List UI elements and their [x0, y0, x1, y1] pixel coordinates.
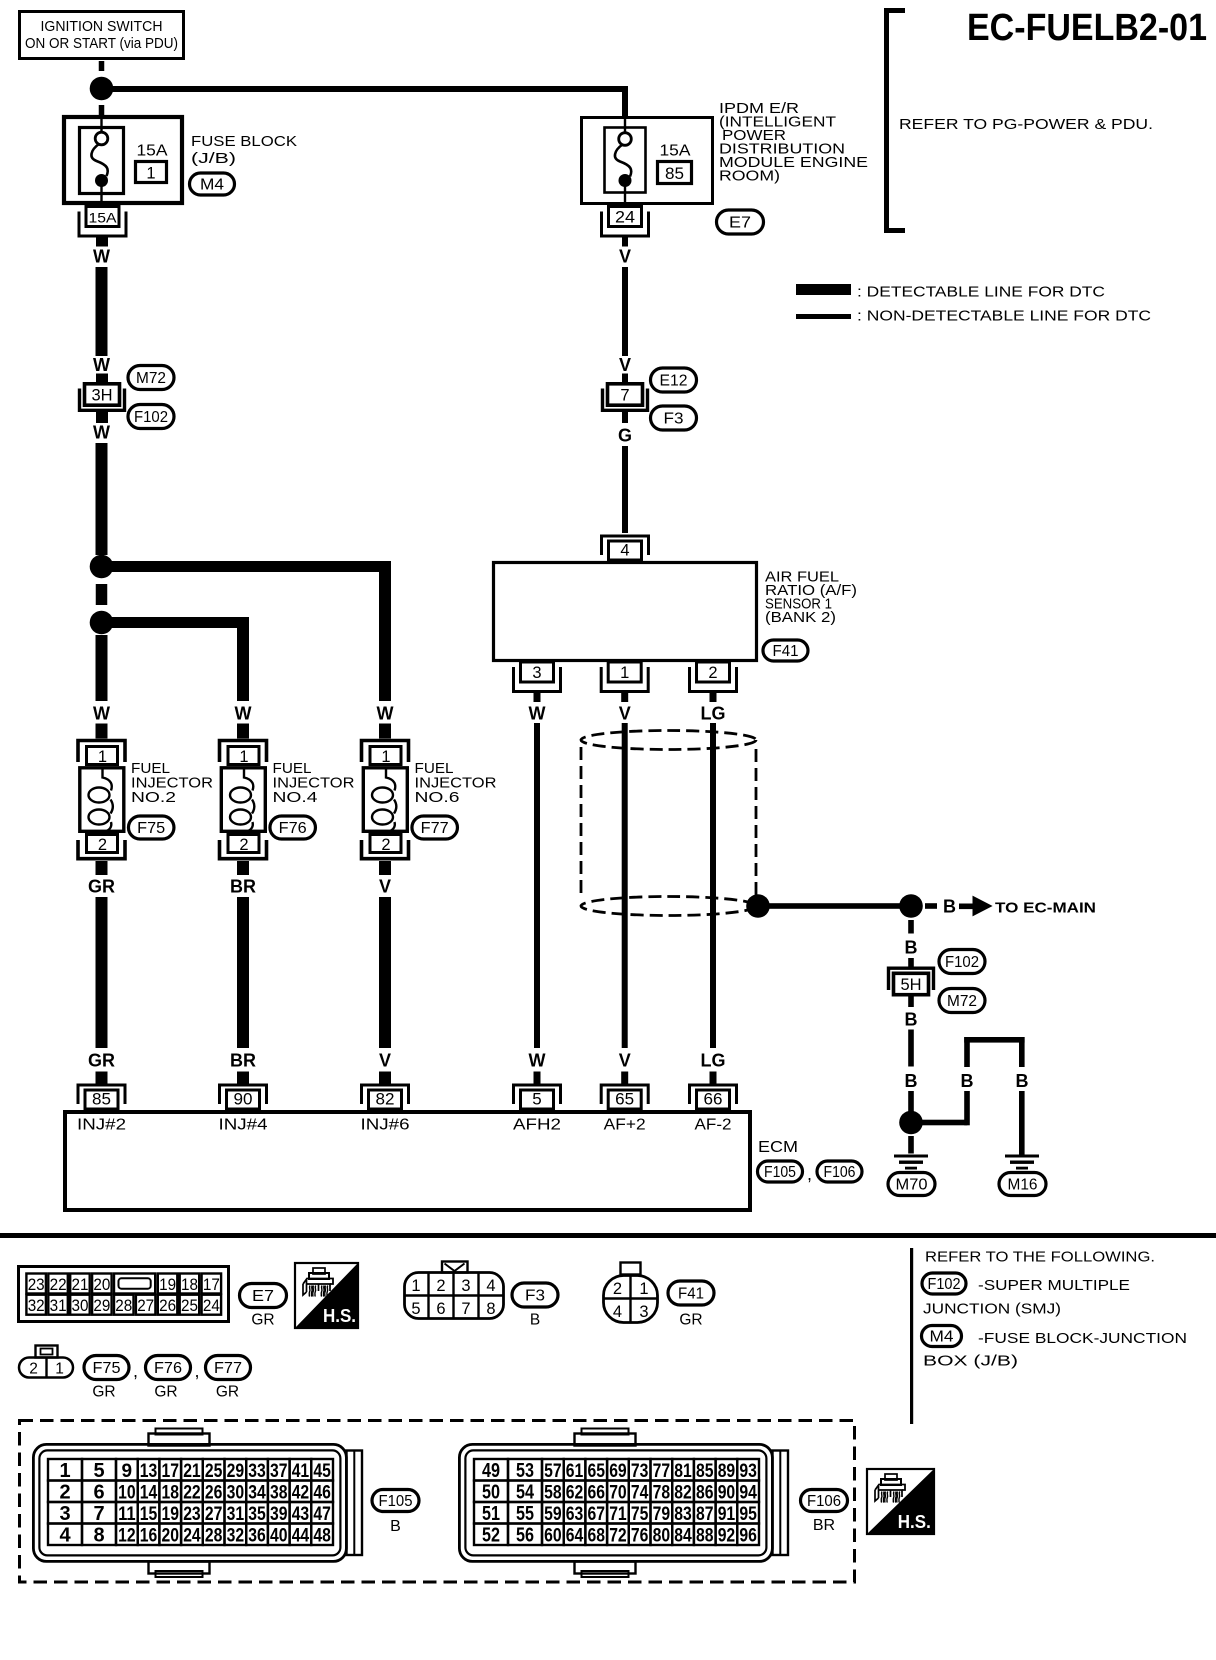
svg-text:72: 72 [609, 1526, 627, 1547]
svg-text:F75: F75 [93, 1360, 121, 1377]
svg-text:91: 91 [718, 1504, 736, 1525]
svg-text:24: 24 [183, 1526, 201, 1547]
svg-text:B: B [943, 897, 956, 917]
svg-text:90: 90 [718, 1483, 736, 1504]
reference bracket [884, 8, 905, 233]
svg-text:B: B [905, 1071, 918, 1091]
connector ref E12 [651, 368, 697, 392]
svg-text:95: 95 [739, 1504, 757, 1525]
svg-text:GR: GR [251, 1312, 274, 1329]
svg-text:68: 68 [588, 1526, 606, 1547]
wire stub into injector [96, 724, 108, 739]
svg-text:BR: BR [813, 1517, 835, 1534]
svg-text:31: 31 [50, 1296, 67, 1315]
connector ref M4 (note) [922, 1326, 962, 1347]
svg-text:F3: F3 [664, 411, 684, 428]
svg-text:1: 1 [239, 748, 248, 766]
svg-text:32: 32 [227, 1526, 245, 1547]
svg-text:B: B [905, 938, 918, 958]
svg-text:F76: F76 [279, 820, 307, 837]
svg-text:18: 18 [181, 1275, 198, 1294]
svg-text:12: 12 [118, 1526, 136, 1547]
svg-text:EC-FUELB2-01: EC-FUELB2-01 [967, 7, 1207, 49]
svg-text:1: 1 [146, 165, 155, 183]
svg-text:ECM: ECM [758, 1139, 798, 1156]
connector ref F105 (view) [372, 1490, 419, 1512]
svg-text:46: 46 [313, 1483, 331, 1504]
svg-text:M70: M70 [896, 1177, 928, 1194]
svg-text:92: 92 [718, 1526, 736, 1547]
ignition switch box [20, 12, 184, 59]
svg-text:W: W [93, 423, 110, 443]
svg-text:W: W [529, 704, 546, 724]
svg-text:89: 89 [718, 1461, 736, 1482]
svg-text:V: V [619, 704, 631, 724]
svg-text:86: 86 [696, 1483, 714, 1504]
ground ref M16 [999, 1173, 1046, 1196]
ECM box [65, 1112, 750, 1210]
svg-text:66: 66 [588, 1483, 606, 1504]
svg-text:44: 44 [292, 1526, 310, 1547]
ground symbol M16 [1005, 1155, 1039, 1170]
svg-text:1: 1 [55, 1361, 64, 1378]
svg-text:F76: F76 [154, 1360, 182, 1377]
svg-text:W: W [93, 247, 110, 267]
wire junction E to right leg [920, 1120, 967, 1126]
terminal 24 below IPDM [602, 207, 649, 237]
svg-text:47: 47 [313, 1504, 331, 1525]
svg-text:61: 61 [566, 1461, 584, 1482]
wire BR injector No.4 to ECM (thick) [237, 897, 249, 1048]
svg-text:31: 31 [227, 1504, 245, 1525]
ECM terminal 85 [78, 1085, 125, 1109]
svg-text:V: V [619, 247, 631, 267]
label IPDM E/R [719, 100, 868, 185]
connector ref F106 [817, 1161, 862, 1182]
svg-text:V: V [379, 1051, 391, 1071]
svg-text:82: 82 [376, 1090, 395, 1109]
svg-text:F102: F102 [134, 409, 168, 426]
connector ref F3 [651, 406, 697, 430]
svg-text:85: 85 [665, 165, 684, 183]
svg-text:4: 4 [59, 1525, 71, 1547]
svg-text:5H: 5H [900, 976, 921, 994]
svg-text:2: 2 [381, 836, 390, 854]
wire dash above 5H [908, 958, 914, 967]
svg-text:3H: 3H [91, 387, 112, 405]
svg-text:GR: GR [154, 1384, 177, 1401]
svg-text:88: 88 [696, 1526, 714, 1547]
svg-text:M4: M4 [200, 177, 224, 194]
arrow TO EC-MAIN [959, 897, 992, 916]
connector view F41 4-pin [604, 1263, 658, 1323]
svg-text:B: B [390, 1518, 401, 1535]
svg-text:94: 94 [739, 1483, 757, 1504]
svg-text:M72: M72 [947, 993, 977, 1010]
wire stub below 7 [622, 411, 628, 423]
svg-text:87: 87 [696, 1504, 714, 1525]
fuel injector No.4 F76 [220, 741, 267, 859]
stubs into ECM terminals [96, 1072, 717, 1086]
labels FUEL INJECTOR NO.6 [415, 760, 497, 806]
svg-text:3: 3 [639, 1303, 648, 1321]
svg-text:3: 3 [59, 1503, 70, 1525]
svg-text:,: , [807, 1164, 812, 1184]
wire dashes below junction D [908, 920, 914, 934]
connector ref E7 (view) [240, 1284, 287, 1308]
wire branch junction B to injector No.6 [101, 561, 391, 701]
labels FUEL INJECTOR NO.2 [131, 760, 213, 806]
svg-text:66: 66 [704, 1090, 723, 1109]
connector ref F106 (view) [801, 1490, 848, 1512]
connector ref F3 (view) [512, 1283, 558, 1307]
wire stub into 3H [96, 374, 108, 383]
wire G 7 to A/F sensor pin 4 (thin) [622, 446, 628, 533]
svg-text:NO.6: NO.6 [415, 789, 460, 806]
svg-text:LG: LG [701, 704, 726, 724]
svg-text:10: 10 [118, 1483, 136, 1504]
svg-text:96: 96 [739, 1526, 757, 1547]
svg-text:M4: M4 [930, 1329, 954, 1346]
connector view E7 24-pin [19, 1267, 229, 1322]
svg-text:(BANK 2): (BANK 2) [765, 609, 836, 626]
svg-text:85: 85 [92, 1090, 111, 1109]
svg-text:32: 32 [28, 1296, 45, 1315]
svg-text:55: 55 [516, 1503, 534, 1525]
svg-text:29: 29 [93, 1296, 110, 1315]
svg-text:65: 65 [615, 1090, 634, 1109]
dashed box around ECM connector views [20, 1421, 855, 1583]
svg-text:ROOM): ROOM) [719, 168, 780, 185]
svg-text:FUSE BLOCK: FUSE BLOCK [191, 133, 297, 150]
fuse number 1 box [136, 162, 167, 183]
svg-text:20: 20 [93, 1275, 110, 1294]
svg-text:AFH2: AFH2 [513, 1117, 561, 1134]
connector ref F41 [763, 640, 808, 661]
svg-text:77: 77 [653, 1461, 671, 1482]
wire stub below terminal 15A [96, 237, 108, 247]
svg-text:F102: F102 [928, 1276, 961, 1293]
svg-text:17: 17 [162, 1461, 180, 1482]
svg-text:3: 3 [461, 1277, 470, 1295]
wire junction C down to injector No.2 (thick) [96, 635, 108, 701]
svg-text:2: 2 [436, 1277, 445, 1295]
svg-text:6: 6 [93, 1482, 104, 1504]
terminal 4 on A/F sensor [602, 536, 649, 560]
connector ref F77 [412, 816, 458, 839]
wire V injector No.6 to ECM (thick) [379, 897, 391, 1048]
svg-text:B: B [530, 1312, 540, 1329]
svg-text:-FUSE BLOCK-JUNCTION: -FUSE BLOCK-JUNCTION [978, 1331, 1187, 1347]
svg-text:INJ#2: INJ#2 [77, 1117, 126, 1134]
connector ref F76 (view) [146, 1356, 191, 1380]
svg-text:30: 30 [227, 1483, 245, 1504]
legend detectable line [796, 284, 1105, 301]
svg-text:24: 24 [203, 1296, 220, 1315]
connector ref F102 (note) [922, 1273, 966, 1294]
labels GR under F75 F76 F77 [92, 1384, 239, 1401]
svg-text:E7: E7 [729, 215, 751, 232]
ECM terminal 90 [220, 1085, 267, 1109]
svg-text:57: 57 [544, 1461, 562, 1482]
svg-text:41: 41 [292, 1461, 310, 1482]
svg-text:51: 51 [482, 1503, 500, 1525]
wire stub below terminal 2 [710, 693, 717, 702]
connector ref F41 (view) [668, 1281, 714, 1305]
svg-text:93: 93 [739, 1461, 757, 1482]
svg-text:65: 65 [588, 1461, 606, 1482]
svg-text:15: 15 [140, 1504, 158, 1525]
connector view F75/F76/F77 2-pin [19, 1346, 73, 1378]
connector ref F105 [758, 1161, 803, 1182]
wire: junction A to IPDM feed [107, 86, 628, 116]
svg-text:59: 59 [544, 1504, 562, 1525]
svg-text:27: 27 [137, 1296, 154, 1315]
svg-text:28: 28 [115, 1296, 132, 1315]
svg-text:1: 1 [620, 664, 629, 682]
wire V sensor pin1 to ECM (thin) [622, 723, 628, 1048]
svg-text:7: 7 [620, 387, 629, 405]
svg-text:15A: 15A [89, 210, 118, 226]
svg-text:75: 75 [631, 1504, 649, 1525]
svg-text:34: 34 [248, 1483, 266, 1504]
wire left leg lower segment [964, 1091, 970, 1125]
legend non-detectable line [796, 309, 1151, 325]
wire junction E to ground M70 [908, 1136, 914, 1154]
svg-text:21: 21 [72, 1275, 89, 1294]
wire stub into injector [379, 724, 391, 739]
svg-text:45: 45 [313, 1461, 331, 1482]
fuse 15A no.85 symbol [615, 118, 632, 204]
svg-text:18: 18 [162, 1483, 180, 1504]
svg-text:74: 74 [631, 1483, 649, 1504]
svg-text:G: G [618, 426, 632, 446]
junction dot E [899, 1111, 923, 1135]
connector ref F75 (view) [84, 1356, 129, 1380]
svg-text:,: , [195, 1361, 200, 1381]
connector ref M4 [190, 173, 235, 195]
svg-text:13: 13 [140, 1461, 158, 1482]
svg-text:2: 2 [239, 836, 248, 854]
wire stub below terminal 1 [621, 693, 628, 702]
svg-text:2: 2 [29, 1361, 38, 1378]
junction dot A [90, 77, 114, 101]
svg-text:25: 25 [181, 1296, 198, 1315]
svg-text:ON OR START (via PDU): ON OR START (via PDU) [25, 36, 178, 52]
ECM terminal 66 [690, 1085, 737, 1109]
svg-text:14: 14 [140, 1483, 158, 1504]
junction dot C [90, 611, 114, 635]
junction dot B [90, 555, 114, 579]
svg-text:85: 85 [696, 1461, 714, 1482]
wire V IPDM to 7 (thin) [622, 267, 628, 356]
ground symbol M70 [894, 1155, 928, 1170]
svg-text:90: 90 [234, 1090, 253, 1109]
wire stub into injector [237, 724, 249, 739]
svg-text:BR: BR [230, 1051, 256, 1071]
svg-text:F77: F77 [214, 1360, 242, 1377]
svg-text:GR: GR [679, 1312, 702, 1329]
svg-text:67: 67 [588, 1504, 606, 1525]
svg-text:22: 22 [183, 1483, 201, 1504]
terminal 1 below sensor [601, 662, 648, 692]
svg-text:40: 40 [270, 1526, 288, 1547]
svg-text:: DETECTABLE LINE FOR DTC: : DETECTABLE LINE FOR DTC [857, 285, 1105, 301]
svg-text:24: 24 [615, 209, 635, 227]
svg-text:,: , [133, 1361, 138, 1381]
svg-text:76: 76 [631, 1526, 649, 1547]
svg-text:60: 60 [544, 1526, 562, 1547]
svg-text:80: 80 [653, 1526, 671, 1547]
svg-text:7: 7 [93, 1503, 104, 1525]
wire branch junction C to injector No.4 [101, 617, 249, 701]
svg-text:35: 35 [248, 1504, 266, 1525]
labels FUEL INJECTOR NO.4 [273, 760, 355, 806]
svg-text:22: 22 [50, 1275, 67, 1294]
svg-text:IGNITION SWITCH: IGNITION SWITCH [41, 19, 163, 35]
svg-text:26: 26 [159, 1296, 176, 1315]
wire LG sensor pin2 to ECM (thin) [710, 723, 716, 1048]
H.S. icon upper [295, 1263, 358, 1328]
wire: junction A to fuse block (dashed) [99, 105, 105, 116]
svg-text:15A: 15A [660, 143, 692, 160]
svg-text:V: V [379, 877, 391, 897]
wire B segment to junction E [908, 1091, 914, 1112]
wire dash right of junction D [925, 903, 937, 909]
svg-text:37: 37 [270, 1461, 288, 1482]
IPDM E/R box [582, 118, 713, 204]
svg-text:19: 19 [162, 1504, 180, 1525]
svg-text:LG: LG [701, 1051, 726, 1071]
svg-text:B: B [1016, 1071, 1029, 1091]
svg-text:8: 8 [93, 1525, 104, 1547]
svg-text:56: 56 [516, 1525, 534, 1547]
svg-text:: NON-DETECTABLE LINE FOR DTC: : NON-DETECTABLE LINE FOR DTC [857, 309, 1151, 325]
svg-text:M72: M72 [136, 370, 166, 387]
wire stub below terminal 24 [622, 237, 628, 247]
terminal 2 below sensor [690, 662, 737, 692]
svg-text:TO EC-MAIN: TO EC-MAIN [995, 900, 1096, 917]
junction dot D [899, 894, 923, 918]
svg-text:7: 7 [461, 1300, 470, 1318]
connector view F105 48-pin [33, 1429, 362, 1578]
wire GR injector No.2 to ECM (thick) [96, 897, 108, 1048]
svg-text:GR: GR [88, 877, 115, 897]
ECM terminal 65 [601, 1085, 648, 1109]
H.S. icon lower [867, 1469, 934, 1534]
svg-text:81: 81 [674, 1461, 692, 1482]
svg-text:2: 2 [708, 664, 717, 682]
svg-text:8: 8 [486, 1300, 495, 1318]
svg-text:-SUPER MULTIPLE: -SUPER MULTIPLE [978, 1278, 1130, 1294]
terminal 3 below sensor [514, 662, 561, 692]
section separator line [0, 1233, 1216, 1238]
svg-text:4: 4 [486, 1277, 495, 1295]
svg-text:36: 36 [248, 1526, 266, 1547]
connector ref F75 [128, 816, 174, 839]
svg-text:F102: F102 [945, 954, 979, 971]
fuse block J/B box [64, 117, 182, 203]
SMJ connector 3H [80, 384, 125, 411]
label FUSE BLOCK (J/B) [191, 133, 297, 167]
svg-text:42: 42 [292, 1483, 310, 1504]
svg-text:F105: F105 [764, 1164, 796, 1181]
svg-text:9: 9 [122, 1461, 133, 1482]
svg-text:W: W [235, 704, 252, 724]
label AIR FUEL RATIO (A/F) SENSOR 1 (BANK 2) [765, 569, 857, 627]
svg-text:26: 26 [205, 1483, 223, 1504]
ECM terminal 82 [362, 1085, 409, 1109]
svg-text:2: 2 [59, 1482, 70, 1504]
svg-text:NO.2: NO.2 [131, 789, 176, 806]
svg-text:B: B [961, 1071, 974, 1091]
svg-text:1: 1 [98, 748, 107, 766]
svg-text:REFER TO PG-POWER & PDU.: REFER TO PG-POWER & PDU. [899, 117, 1153, 133]
fuse 15A no.1 symbol [91, 117, 108, 203]
svg-text:W: W [377, 704, 394, 724]
svg-text:F106: F106 [824, 1164, 856, 1181]
svg-text:19: 19 [159, 1275, 176, 1294]
svg-text:NO.4: NO.4 [273, 789, 318, 806]
svg-text:62: 62 [566, 1483, 584, 1504]
svg-text:1: 1 [411, 1277, 420, 1295]
svg-text:E7: E7 [252, 1288, 274, 1305]
svg-text:5: 5 [532, 1090, 541, 1109]
svg-text:6: 6 [436, 1300, 445, 1318]
fuel injector No.6 F77 [362, 741, 409, 859]
svg-text:F75: F75 [137, 820, 165, 837]
svg-text:23: 23 [28, 1275, 45, 1294]
svg-text:38: 38 [270, 1483, 288, 1504]
svg-text:30: 30 [72, 1296, 89, 1315]
wire W fuse block to 3H (thick) [96, 267, 108, 356]
svg-text:71: 71 [609, 1504, 627, 1525]
svg-text:4: 4 [613, 1303, 622, 1321]
svg-text:69: 69 [609, 1461, 627, 1482]
svg-text:49: 49 [482, 1460, 500, 1482]
svg-text:73: 73 [631, 1461, 649, 1482]
svg-text:F3: F3 [525, 1288, 545, 1305]
ground ref M70 [888, 1173, 935, 1196]
svg-text:52: 52 [482, 1525, 500, 1547]
svg-text:JUNCTION (SMJ): JUNCTION (SMJ) [923, 1302, 1061, 1318]
wire: ignition switch to junction A (dashed) [99, 61, 105, 71]
connector view F3 8-pin [405, 1262, 505, 1320]
wire W sensor pin3 to ECM (thin) [534, 723, 540, 1048]
svg-text:11: 11 [118, 1504, 136, 1525]
shield dashed cylinder around sensor wires [581, 731, 756, 916]
svg-text:83: 83 [674, 1504, 692, 1525]
SMJ connector 5H [889, 968, 934, 995]
svg-text:GR: GR [216, 1384, 239, 1401]
connector ref F102 [939, 950, 985, 974]
svg-text:4: 4 [620, 542, 629, 560]
svg-text:BOX (J/B): BOX (J/B) [923, 1354, 1018, 1370]
svg-text:GR: GR [92, 1384, 115, 1401]
wire stub below 3H [96, 411, 108, 423]
wire W 3H to junction B (thick) [96, 443, 108, 555]
connector view F106 48-pin [459, 1429, 788, 1578]
svg-text:5: 5 [411, 1300, 420, 1318]
svg-text:2: 2 [98, 836, 107, 854]
svg-text:25: 25 [205, 1461, 223, 1482]
svg-text:E12: E12 [660, 373, 688, 390]
B jumper upside-down U [964, 1037, 1024, 1067]
svg-text:V: V [619, 355, 631, 375]
connector ref F76 [270, 816, 316, 839]
svg-text:V: V [619, 1051, 631, 1071]
svg-text:W: W [529, 1051, 546, 1071]
